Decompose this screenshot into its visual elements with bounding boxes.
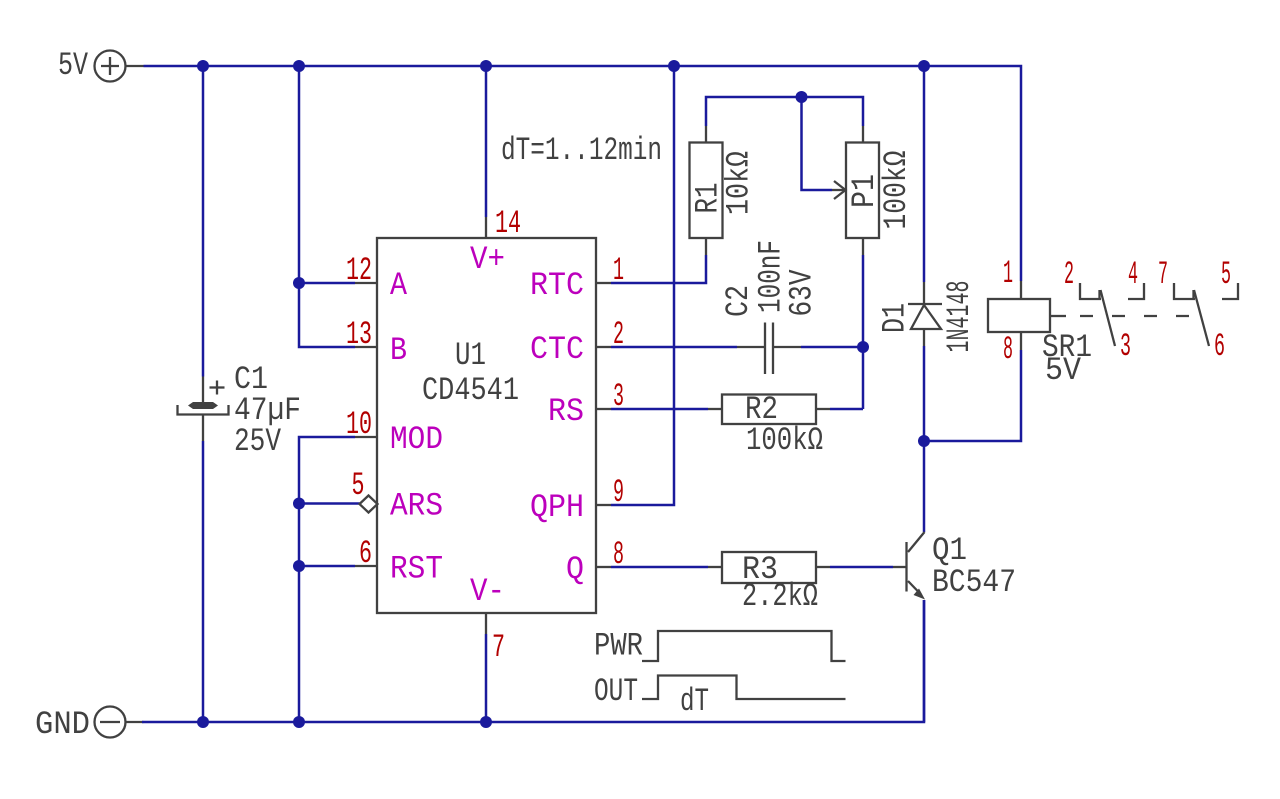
wire riser MOD/ARS/RST to GND xyxy=(299,437,355,722)
svg-text:10kΩ: 10kΩ xyxy=(721,151,758,215)
pin stub 12 A xyxy=(355,282,377,284)
svg-text:D1: D1 xyxy=(876,303,913,333)
wire 5V top rail xyxy=(144,66,1022,281)
svg-text:6: 6 xyxy=(359,535,372,572)
wire node to relay pin 8 xyxy=(924,350,1021,441)
svg-text:U1: U1 xyxy=(455,337,486,374)
dashed actuator line xyxy=(1080,315,1189,317)
wire C2 to node xyxy=(801,346,863,349)
svg-text:7: 7 xyxy=(492,629,505,666)
svg-text:V-: V- xyxy=(470,573,505,610)
svg-text:ARS: ARS xyxy=(390,488,443,525)
wire V+ pin 14 riser xyxy=(485,66,488,217)
svg-text:GND: GND xyxy=(35,706,90,743)
svg-text:63V: 63V xyxy=(784,269,821,317)
wire D1 branch from 5V rail xyxy=(923,66,926,282)
wire pin RST xyxy=(299,565,355,568)
junction on 5V rail at A/B riser xyxy=(293,60,305,72)
capacitor C1 (polarized) xyxy=(178,377,229,442)
junction node CTC/P1 xyxy=(857,341,869,353)
svg-text:6: 6 xyxy=(1214,328,1225,365)
pin stub 3 RS xyxy=(596,408,611,410)
ground symbol GND xyxy=(95,707,144,738)
wire RTC pin 1 to R1 xyxy=(611,255,706,283)
svg-text:CD4541: CD4541 xyxy=(422,372,519,409)
svg-text:7: 7 xyxy=(1158,256,1168,293)
svg-text:1N4148: 1N4148 xyxy=(941,281,978,353)
junction collector node xyxy=(918,435,930,447)
svg-text:5V: 5V xyxy=(58,47,89,84)
wire C1 to GND rail xyxy=(202,441,205,722)
wire V- pin 7 to GND rail xyxy=(485,634,488,722)
wire CTC pin 2 to C2 xyxy=(611,346,737,349)
wire Q pin 8 to R3 xyxy=(611,566,708,569)
contact terminal 7 xyxy=(1174,283,1195,299)
svg-text:A: A xyxy=(390,267,408,304)
wire R2 to node corner xyxy=(830,408,863,411)
capacitor C2 xyxy=(737,323,801,375)
junction node pin RST xyxy=(293,560,305,572)
svg-text:5: 5 xyxy=(1221,256,1231,293)
svg-text:Q: Q xyxy=(566,551,584,588)
junction on 5V rail at D1 xyxy=(918,60,930,72)
junction on GND rail at MOD riser xyxy=(293,716,305,728)
wire RS pin 3 to R2 xyxy=(611,408,708,411)
junction node pin ARS xyxy=(293,498,305,510)
svg-text:OUT: OUT xyxy=(594,673,638,710)
pin ARS diamond xyxy=(360,496,378,513)
wire node to Q1 collector xyxy=(923,441,926,532)
svg-text:QPH: QPH xyxy=(530,489,584,526)
pin stub 8 Q xyxy=(596,566,611,568)
wire pin A xyxy=(299,282,355,285)
svg-text:dT: dT xyxy=(680,683,709,720)
wire Q1 emitter to GND rail xyxy=(923,600,926,722)
wire GND bottom rail xyxy=(142,600,924,722)
junction on GND rail at C1 xyxy=(197,716,209,728)
contact blade 6 xyxy=(1194,290,1209,346)
wire QPH riser to 5V rail xyxy=(611,66,674,505)
junction on GND rail at V- xyxy=(480,716,492,728)
svg-text:RTC: RTC xyxy=(530,267,584,304)
wire P1 bottom to CTC/R2 node xyxy=(862,255,865,409)
svg-text:CTC: CTC xyxy=(530,331,584,368)
resistor R1 xyxy=(690,126,723,255)
potentiometer P1 xyxy=(832,126,879,255)
pin stub 2 CTC xyxy=(596,346,611,348)
wire riser to pins A and B xyxy=(299,66,355,347)
svg-text:8: 8 xyxy=(1003,331,1013,368)
contact terminal 2 xyxy=(1080,283,1101,299)
contact terminal 5 xyxy=(1222,283,1238,299)
svg-text:5: 5 xyxy=(352,467,365,504)
junction on 5V rail at QPH riser xyxy=(668,60,680,72)
junction wiper tap on sub-rail xyxy=(796,91,808,103)
waveform OUT trace xyxy=(642,676,846,700)
relay coil SR1 xyxy=(988,281,1066,350)
svg-text:3: 3 xyxy=(1120,328,1131,365)
pin stub 6 RST xyxy=(355,565,377,567)
wire R3 to Q1 base xyxy=(830,566,893,569)
wire D1 anode down to collector node xyxy=(923,346,926,441)
pin stub 1 RTC xyxy=(596,282,611,284)
svg-text:12: 12 xyxy=(346,252,372,289)
diode D1 1N4148 xyxy=(908,282,942,346)
svg-text:4: 4 xyxy=(1128,256,1138,293)
svg-text:RS: RS xyxy=(548,393,584,430)
transistor Q1 xyxy=(893,532,925,600)
pin stub 7 V- xyxy=(485,613,487,634)
svg-text:dT=1..12min: dT=1..12min xyxy=(501,132,662,169)
resistor R3 xyxy=(708,552,830,583)
svg-text:RST: RST xyxy=(390,551,443,588)
resistor R2 xyxy=(708,395,830,425)
svg-text:BC547: BC547 xyxy=(932,564,1016,601)
contact terminal 4 xyxy=(1128,283,1144,299)
junction on 5V rail at V+ xyxy=(480,60,492,72)
svg-text:V+: V+ xyxy=(470,241,505,278)
svg-text:9: 9 xyxy=(613,474,624,511)
svg-text:1: 1 xyxy=(1003,255,1013,292)
wire wiper of P1 xyxy=(802,97,833,190)
power symbol 5V xyxy=(95,51,144,82)
svg-text:B: B xyxy=(390,332,407,369)
pin stub 9 QPH xyxy=(596,504,611,506)
svg-text:2.2kΩ: 2.2kΩ xyxy=(742,578,818,615)
junction on 5V rail at C1 branch xyxy=(197,60,209,72)
svg-text:100kΩ: 100kΩ xyxy=(878,151,915,230)
svg-text:2: 2 xyxy=(1064,256,1074,293)
svg-text:MOD: MOD xyxy=(390,421,443,458)
svg-text:100kΩ: 100kΩ xyxy=(746,422,823,459)
junction node pin A xyxy=(293,277,305,289)
wire pin ARS xyxy=(299,502,360,505)
pin stub 10 MOD xyxy=(355,436,377,438)
svg-text:25V: 25V xyxy=(234,423,282,460)
wire C1 branch from 5V rail xyxy=(202,66,205,377)
svg-text:PWR: PWR xyxy=(594,628,643,665)
svg-text:14: 14 xyxy=(495,205,521,242)
svg-text:10: 10 xyxy=(346,406,372,443)
contact blade 3 xyxy=(1101,290,1116,346)
wire R1 top to P1 top sub-rail xyxy=(706,97,863,126)
op-amp U1 IC body CD4541 xyxy=(377,238,596,613)
svg-text:5V: 5V xyxy=(1045,352,1082,389)
svg-text:13: 13 xyxy=(346,316,372,353)
pin stub 13 B xyxy=(355,346,377,348)
waveform PWR trace xyxy=(642,631,846,661)
pin stub 14 V+ xyxy=(485,217,487,238)
